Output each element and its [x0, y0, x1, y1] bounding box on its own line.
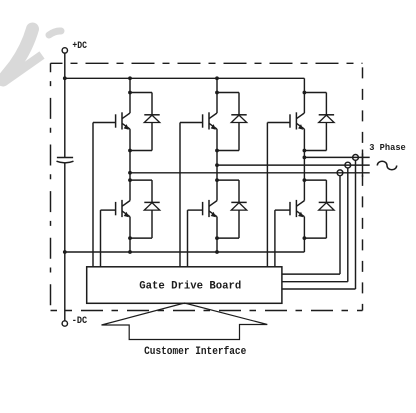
svg-text:Gate Drive Board: Gate Drive Board — [139, 280, 241, 292]
svg-text:-DC: -DC — [72, 316, 87, 327]
svg-text:3 Phase: 3 Phase — [369, 142, 406, 153]
svg-text:+DC: +DC — [72, 41, 87, 52]
svg-text:Customer Interface: Customer Interface — [144, 346, 247, 358]
